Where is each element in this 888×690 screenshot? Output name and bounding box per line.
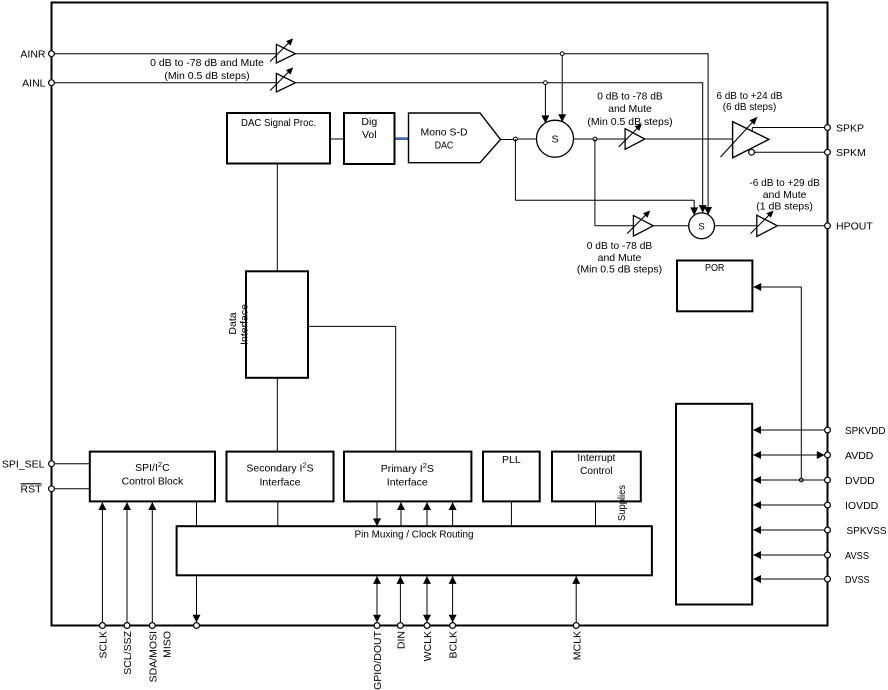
- svg-text:AINL: AINL: [22, 77, 46, 89]
- svg-text:-6 dB to +29 dB: -6 dB to +29 dB: [749, 177, 820, 189]
- svg-text:SCL/SSZ: SCL/SSZ: [122, 630, 134, 674]
- svg-text:POR: POR: [705, 262, 725, 274]
- svg-text:0 dB to -78 dB: 0 dB to -78 dB: [597, 91, 663, 103]
- svg-text:DVDD: DVDD: [845, 475, 875, 487]
- svg-text:SDA/MOSI: SDA/MOSI: [148, 631, 160, 682]
- svg-text:(Min 0.5 dB steps): (Min 0.5 dB steps): [587, 116, 672, 128]
- svg-text:IOVDD: IOVDD: [845, 500, 879, 512]
- svg-text:0 dB to -78 dB and Mute: 0 dB to -78 dB and Mute: [150, 57, 264, 69]
- svg-text:Interface: Interface: [239, 304, 251, 345]
- svg-text:AVDD: AVDD: [845, 450, 874, 462]
- svg-text:DAC: DAC: [435, 140, 454, 152]
- svg-text:Control Block: Control Block: [122, 476, 184, 488]
- svg-text:SCLK: SCLK: [98, 631, 110, 658]
- svg-text:SPKP: SPKP: [836, 123, 864, 135]
- svg-text:SPKVDD: SPKVDD: [845, 425, 886, 437]
- svg-text:Dig: Dig: [361, 116, 377, 128]
- svg-text:HPOUT: HPOUT: [836, 221, 873, 233]
- svg-text:PLL: PLL: [502, 454, 521, 466]
- svg-text:AINR: AINR: [20, 49, 46, 61]
- svg-text:SPI/I2C: SPI/I2C: [135, 460, 170, 474]
- svg-text:Interface: Interface: [260, 477, 301, 489]
- svg-text:SPKM: SPKM: [836, 147, 866, 159]
- svg-text:and Mute: and Mute: [763, 189, 807, 201]
- svg-text:GPIO/DOUT: GPIO/DOUT: [372, 630, 384, 690]
- svg-text:(Min 0.5 dB steps): (Min 0.5 dB steps): [577, 264, 662, 276]
- svg-text:DVSS: DVSS: [845, 574, 870, 586]
- svg-text:MCLK: MCLK: [571, 631, 583, 660]
- svg-text:AVSS: AVSS: [845, 550, 869, 562]
- svg-text:Supplies: Supplies: [616, 485, 628, 521]
- svg-text:Primary I2S: Primary I2S: [381, 461, 434, 475]
- svg-text:and Mute: and Mute: [598, 252, 642, 264]
- svg-text:(1 dB steps): (1 dB steps): [756, 200, 813, 212]
- svg-text:Control: Control: [580, 465, 613, 477]
- svg-text:(Min 0.5 dB steps): (Min 0.5 dB steps): [164, 70, 249, 82]
- svg-text:WCLK: WCLK: [422, 631, 434, 661]
- svg-text:Pin Muxing / Clock Routing: Pin Muxing / Clock Routing: [355, 529, 474, 541]
- svg-text:Interface: Interface: [387, 476, 428, 488]
- svg-text:BCLK: BCLK: [448, 631, 460, 658]
- svg-text:(6 dB steps): (6 dB steps): [723, 101, 777, 113]
- svg-text:MISO: MISO: [161, 631, 173, 658]
- svg-text:RST: RST: [21, 484, 43, 496]
- svg-text:0 dB to -78 dB: 0 dB to -78 dB: [587, 240, 653, 252]
- svg-text:DIN: DIN: [396, 631, 408, 649]
- svg-text:S: S: [698, 221, 704, 232]
- svg-text:Interrupt: Interrupt: [577, 452, 615, 464]
- svg-text:Mono S-D: Mono S-D: [421, 126, 468, 138]
- svg-text:SPKVSS: SPKVSS: [847, 525, 887, 537]
- svg-text:Data: Data: [227, 312, 239, 334]
- svg-text:S: S: [551, 134, 558, 146]
- svg-text:SPI_SEL: SPI_SEL: [2, 459, 45, 471]
- svg-text:Vol: Vol: [362, 129, 377, 141]
- svg-text:and Mute: and Mute: [608, 103, 652, 115]
- svg-text:DAC Signal Proc.: DAC Signal Proc.: [241, 117, 316, 129]
